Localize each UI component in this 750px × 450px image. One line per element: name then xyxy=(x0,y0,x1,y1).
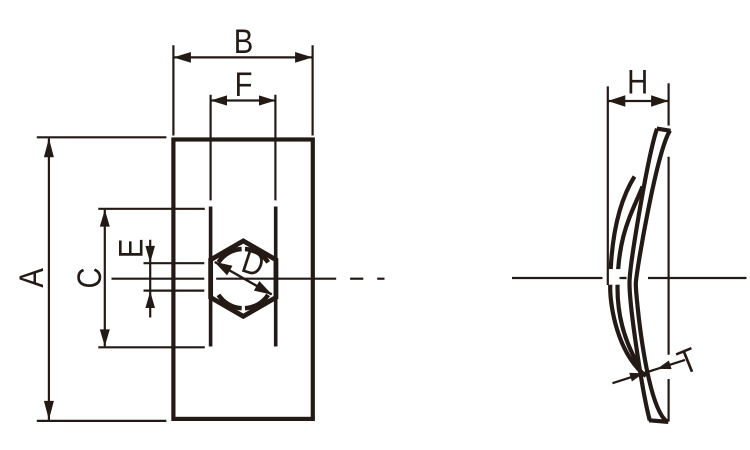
dimension D arrows xyxy=(214,262,272,295)
dimension A arrows xyxy=(44,138,54,420)
dimension H extension line left xyxy=(607,86,609,285)
dimension T arrows xyxy=(629,361,671,382)
dimension H arrows xyxy=(608,95,669,106)
dimension B line xyxy=(173,56,312,58)
dimension B arrows xyxy=(173,52,312,63)
svg-text:E: E xyxy=(111,239,150,258)
washer front outline xyxy=(173,140,312,419)
dimension T line xyxy=(613,360,686,383)
dimension F arrows xyxy=(211,95,276,105)
dimension D line xyxy=(215,262,272,294)
dimension H line xyxy=(608,100,669,102)
dimension C arrows xyxy=(100,210,110,347)
E feature line lower xyxy=(144,290,205,292)
center axis front view xyxy=(112,278,385,280)
dimension A line xyxy=(48,138,50,420)
dimension A extension lines xyxy=(37,137,167,421)
svg-text:C: C xyxy=(70,267,109,288)
svg-text:B: B xyxy=(234,22,253,61)
svg-text:H: H xyxy=(627,62,648,101)
slot line right (across-flats line) xyxy=(274,207,278,347)
slot line left (across-flats line) xyxy=(209,207,213,347)
hole circle xyxy=(218,249,268,308)
washer top end face xyxy=(657,129,671,131)
washer side inner curve xyxy=(630,129,658,421)
hexagon hole gap in side view xyxy=(603,269,623,285)
dimension F line xyxy=(211,99,276,101)
center axis side view xyxy=(512,277,747,279)
svg-text:F: F xyxy=(235,65,253,104)
washer bottom end face xyxy=(649,420,668,422)
svg-text:T: T xyxy=(672,340,703,382)
center axis dash through hole xyxy=(620,277,627,279)
dimension E arrows xyxy=(145,246,155,308)
hexagon hole xyxy=(211,241,276,316)
washer near rim inner curve xyxy=(618,187,643,367)
dimension E stem xyxy=(149,240,151,318)
dimension H extension line right xyxy=(667,83,669,421)
dimension C line xyxy=(104,210,106,347)
dimension F extension lines xyxy=(211,95,276,201)
dimension C extension lines xyxy=(98,209,205,347)
E feature line upper xyxy=(144,262,205,264)
washer side outer curve xyxy=(636,131,670,422)
dimension B extension lines xyxy=(173,45,312,135)
washer near rim outer curve xyxy=(610,177,646,377)
svg-text:A: A xyxy=(12,267,51,287)
